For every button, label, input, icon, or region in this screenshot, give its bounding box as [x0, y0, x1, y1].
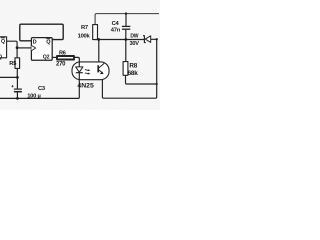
svg-text:100k: 100k	[78, 34, 91, 40]
svg-text:C3: C3	[38, 86, 46, 92]
svg-text:R8: R8	[129, 62, 137, 69]
svg-text:Q2: Q2	[43, 55, 50, 61]
svg-text:68k: 68k	[128, 70, 139, 77]
svg-text:Q: Q	[0, 54, 2, 60]
svg-text:DW: DW	[130, 33, 138, 39]
svg-text:30V: 30V	[130, 41, 140, 47]
svg-text:4N25: 4N25	[77, 83, 94, 90]
svg-text:R6: R6	[59, 50, 66, 56]
svg-text:270: 270	[56, 62, 66, 68]
svg-text:Q: Q	[1, 39, 5, 45]
svg-text:R7: R7	[81, 25, 88, 31]
svg-text:C4: C4	[112, 21, 120, 27]
svg-text:47n: 47n	[111, 27, 121, 33]
svg-text:R5: R5	[9, 61, 17, 67]
svg-text:D: D	[33, 40, 37, 46]
svg-text:100 µ: 100 µ	[27, 94, 40, 100]
